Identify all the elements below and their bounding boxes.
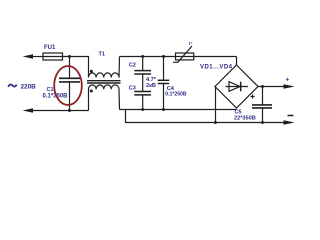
red highlight ellipse around C1 xyxy=(54,66,82,105)
svg-text:VD1...VD4: VD1...VD4 xyxy=(200,65,233,71)
label C1 value xyxy=(43,87,69,100)
diode bridge VD1...VD4 xyxy=(215,57,258,109)
capacitor C1 xyxy=(59,57,80,111)
input terminal arrow bottom-left xyxy=(23,108,89,113)
node junction C4 top xyxy=(162,55,165,58)
capacitor C3 xyxy=(134,92,151,110)
wire plus rail xyxy=(258,86,292,88)
polarity dot top xyxy=(90,70,93,73)
capacitor C5 xyxy=(251,87,273,123)
wire jog to minus rail xyxy=(126,110,293,123)
label C4 value xyxy=(165,86,187,98)
node junction C5 top xyxy=(261,85,264,88)
wire top rail to transformer xyxy=(70,57,89,73)
wire top rail right section xyxy=(120,56,237,58)
label C2 C3 value xyxy=(146,77,157,89)
node junction C5 bottom xyxy=(261,121,264,124)
svg-text:T1: T1 xyxy=(99,52,106,58)
label ~220V source xyxy=(8,84,36,91)
svg-text:C2: C2 xyxy=(129,63,136,69)
capacitor C2 xyxy=(134,57,151,92)
transformer T1 (common-mode choke) xyxy=(87,57,121,111)
wire AC bottom rail xyxy=(120,109,237,111)
thermistor RK xyxy=(173,46,194,62)
label C5 value xyxy=(234,110,256,122)
svg-text:C1: C1 xyxy=(47,87,54,93)
node junction C1 top xyxy=(68,55,71,58)
diode symbol inside xyxy=(226,86,249,88)
node junction minus rail xyxy=(214,121,217,124)
node junction C4 bottom xyxy=(162,108,165,111)
output terminal arrow plus xyxy=(284,77,295,89)
wire bridge minus lead xyxy=(215,87,217,123)
svg-text:22*350В: 22*350В xyxy=(234,116,256,122)
node junction C2 top xyxy=(141,55,144,58)
svg-text:FU1: FU1 xyxy=(44,45,56,51)
svg-text:2кВ: 2кВ xyxy=(146,83,156,89)
svg-text:220В: 220В xyxy=(21,84,37,91)
svg-text:+: + xyxy=(286,77,290,84)
svg-text:t°: t° xyxy=(189,41,193,47)
core lines xyxy=(87,80,121,82)
fuse FU1 xyxy=(43,53,70,60)
node junction C3 bottom xyxy=(141,108,144,111)
capacitor C4 xyxy=(158,57,170,110)
output terminal arrow minus xyxy=(284,116,295,125)
input terminal arrow top-left xyxy=(23,54,44,59)
secondary winding bottom xyxy=(89,85,120,111)
node junction C1 bottom xyxy=(68,109,71,112)
svg-text:0.1*250В: 0.1*250В xyxy=(165,92,187,98)
primary winding top xyxy=(89,57,120,78)
polarity plus mark xyxy=(251,96,255,98)
polarity dot bottom xyxy=(90,90,93,93)
svg-text:C3: C3 xyxy=(129,85,136,91)
